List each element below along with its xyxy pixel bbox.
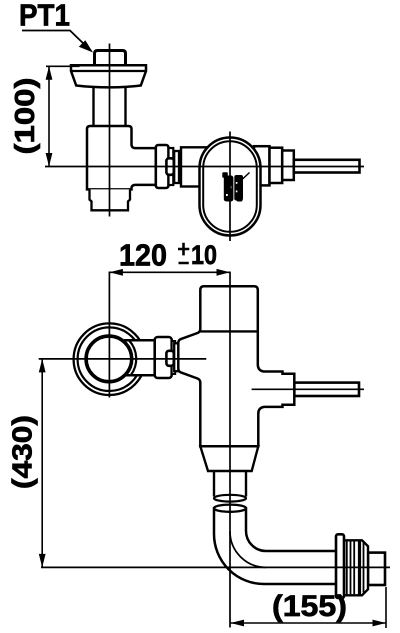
svg-text:120: 120: [119, 238, 167, 273]
svg-text:PT1: PT1: [19, 0, 70, 33]
svg-text:(430): (430): [7, 415, 38, 489]
svg-text:10: 10: [191, 240, 217, 270]
svg-text:(100): (100): [9, 78, 40, 155]
svg-text:(155): (155): [272, 590, 347, 623]
